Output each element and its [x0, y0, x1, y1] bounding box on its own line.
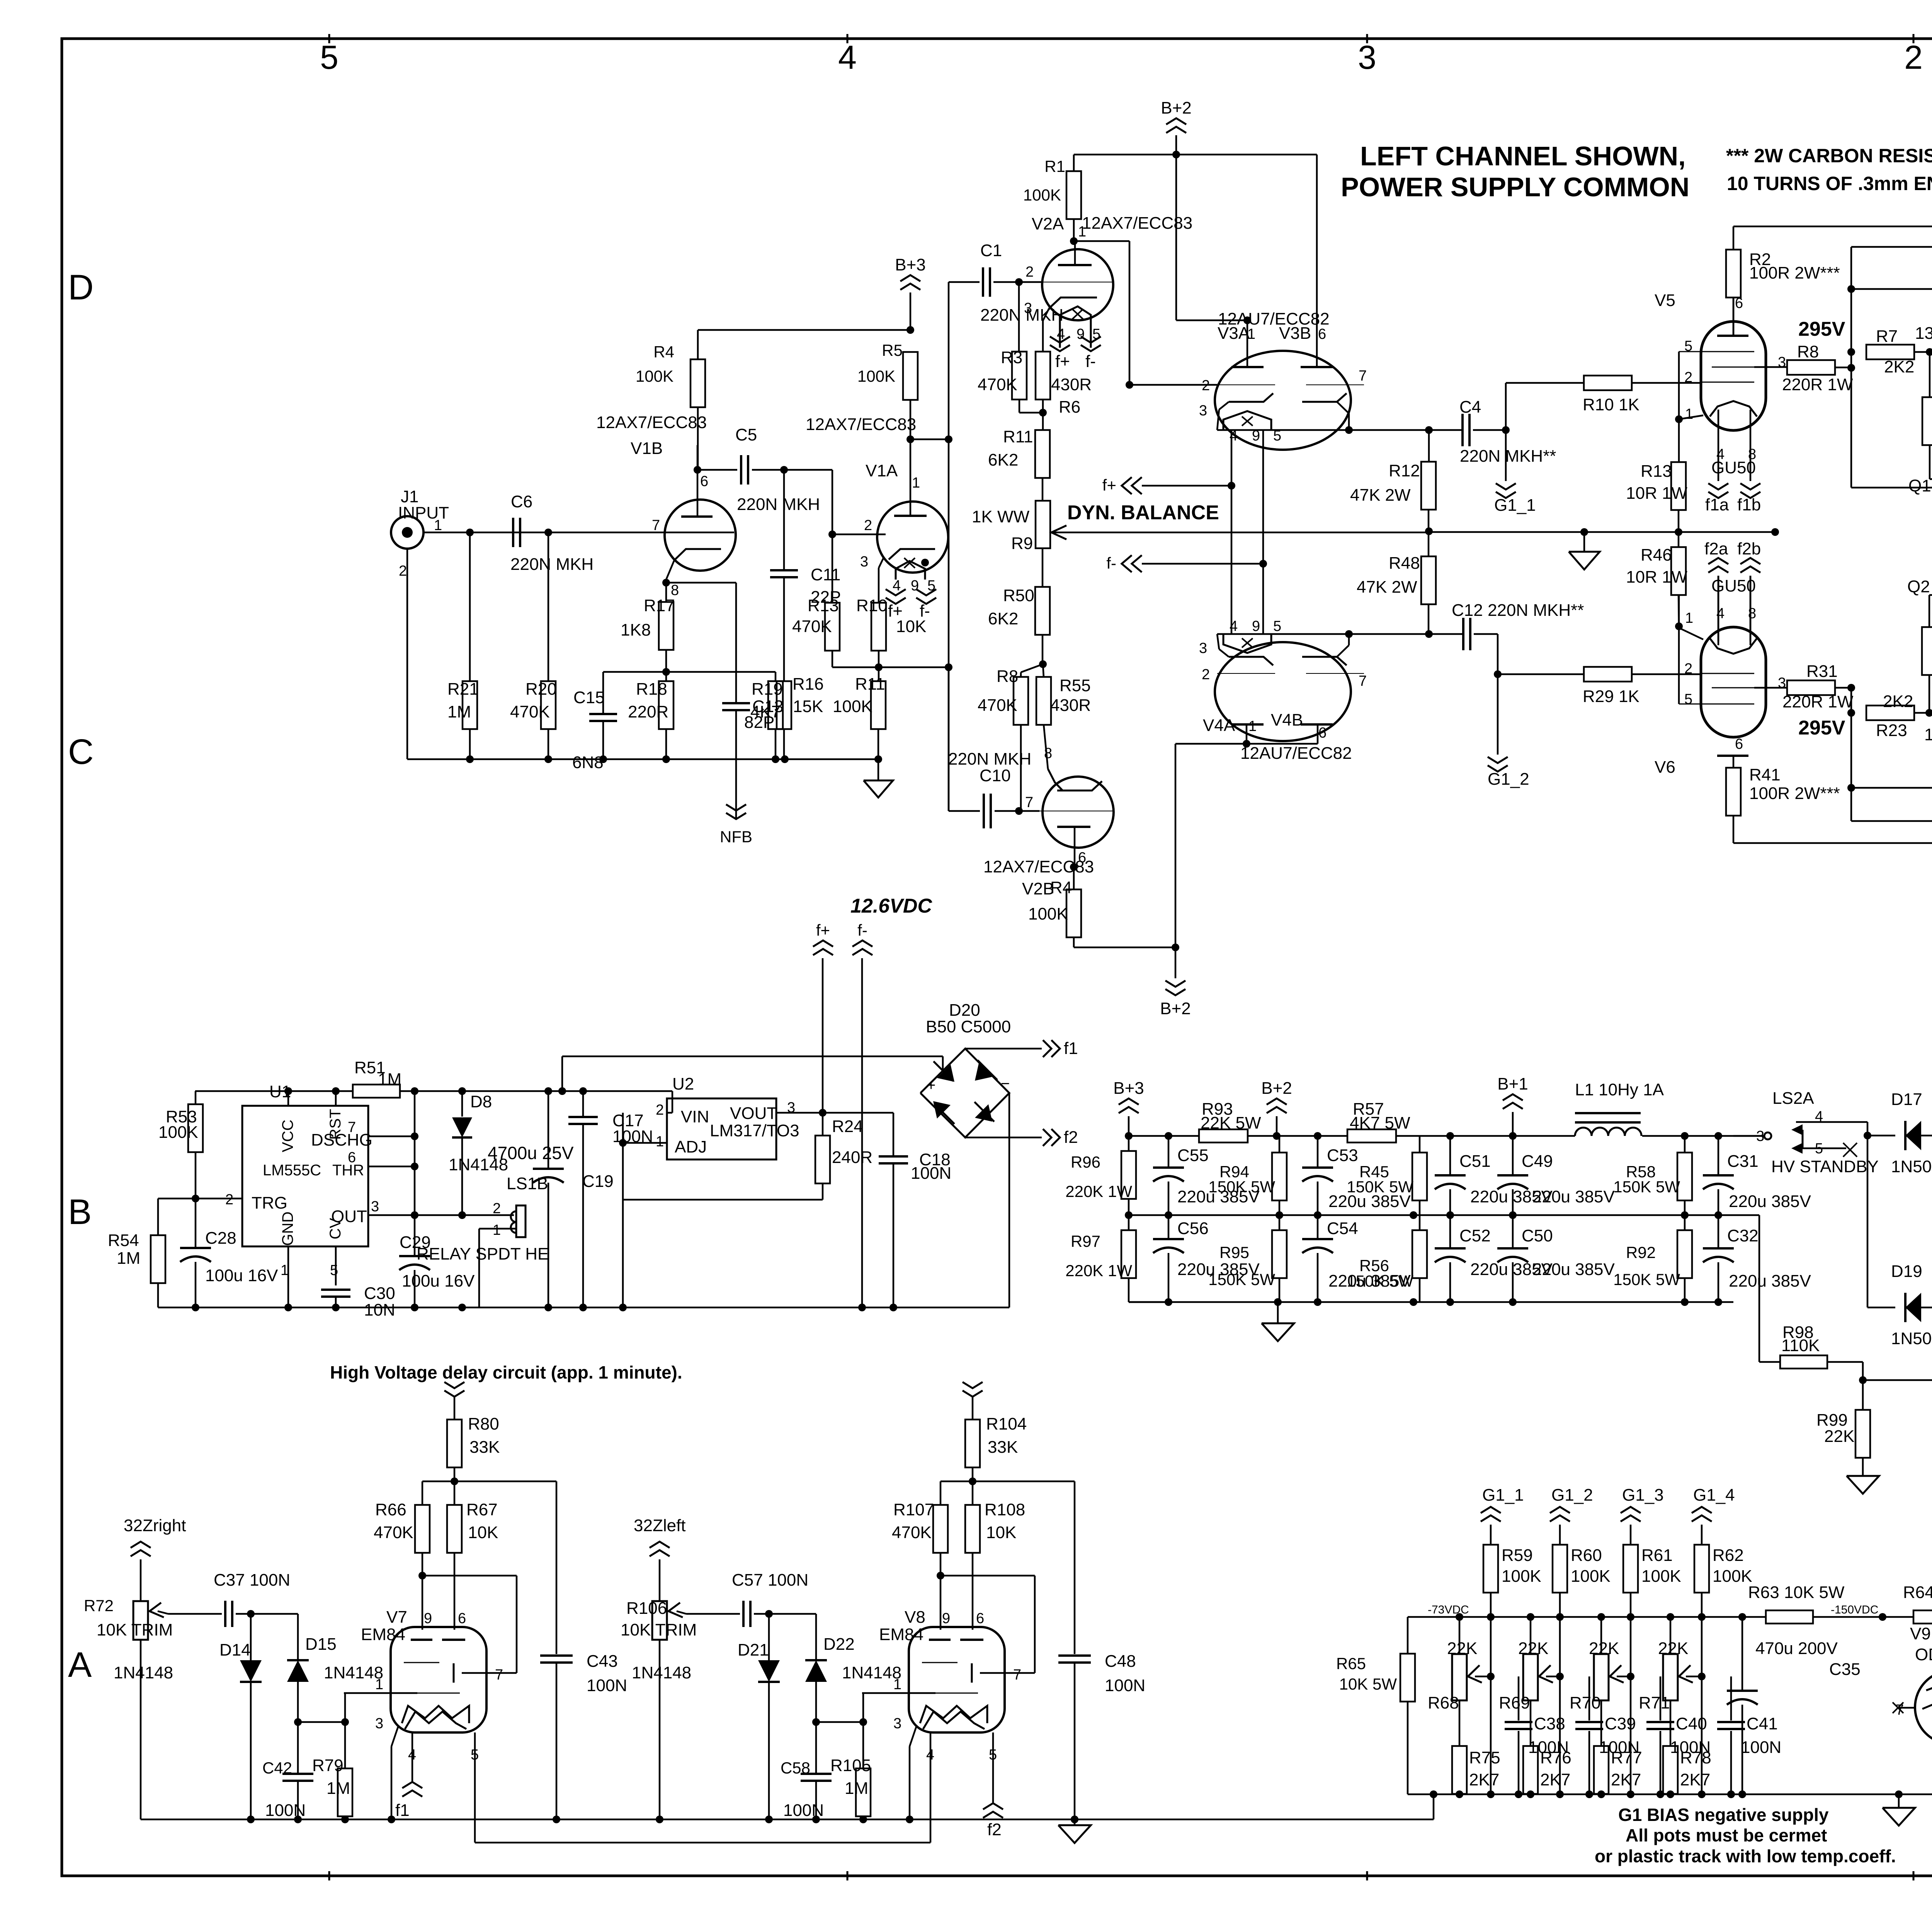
- resistor R97 220K 1W: [1065, 1215, 1168, 1302]
- resistor R48 47K 2W: [1357, 527, 1436, 634]
- capacitor 4700u 25V: [488, 1091, 574, 1307]
- heater V2 pins: [1050, 306, 1101, 371]
- net G1_2 arrow: [1550, 1486, 1593, 1545]
- svg-text:R79: R79: [312, 1756, 344, 1775]
- svg-text:VCC: VCC: [279, 1120, 296, 1152]
- resistor R10 10K: [856, 558, 926, 671]
- svg-text:2K2: 2K2: [1884, 357, 1914, 376]
- svg-text:R71: R71: [1639, 1693, 1670, 1712]
- svg-text:110K: 110K: [1781, 1336, 1820, 1355]
- svg-text:B50 C5000: B50 C5000: [926, 1017, 1011, 1036]
- svg-text:5: 5: [1815, 1141, 1823, 1157]
- svg-text:G1_1: G1_1: [1482, 1486, 1524, 1505]
- svg-text:1N4148: 1N4148: [324, 1663, 383, 1682]
- svg-text:82P: 82P: [744, 713, 774, 732]
- svg-text:4700u 25V: 4700u 25V: [488, 1143, 574, 1163]
- svg-text:R97: R97: [1071, 1232, 1100, 1250]
- svg-text:6: 6: [1318, 326, 1326, 342]
- zener D1 130Vz 1W: [1915, 308, 1932, 366]
- svg-text:R31: R31: [1806, 662, 1838, 681]
- capacitor C17 100N: [568, 1091, 653, 1307]
- svg-text:R20: R20: [526, 680, 557, 699]
- svg-text:R18: R18: [636, 680, 667, 699]
- svg-text:100N: 100N: [783, 1801, 824, 1820]
- svg-text:4: 4: [838, 39, 857, 76]
- svg-text:f2a: f2a: [1704, 539, 1728, 558]
- svg-text:130Vz 1W: 130Vz 1W: [1915, 324, 1932, 343]
- capacitor C42 100N: [262, 1722, 313, 1823]
- svg-text:7: 7: [652, 517, 660, 534]
- capacitor C51 220u 385V: [1435, 1136, 1553, 1215]
- svg-text:1: 1: [434, 517, 442, 534]
- svg-text:R67: R67: [466, 1500, 498, 1519]
- svg-text:R41: R41: [1749, 765, 1781, 784]
- resistor R98 110K: [1780, 1323, 1867, 1384]
- svg-text:4: 4: [1716, 446, 1725, 462]
- tube V7 EM84: [344, 1608, 503, 1732]
- wire V2A plate to V3A grid: [1074, 241, 1217, 389]
- svg-text:DYN. BALANCE: DYN. BALANCE: [1067, 502, 1219, 524]
- svg-text:C40: C40: [1676, 1714, 1707, 1733]
- capacitor C50 220u 385V: [1497, 1215, 1615, 1302]
- svg-text:f+: f+: [1102, 476, 1116, 494]
- svg-text:32Zleft: 32Zleft: [634, 1516, 686, 1535]
- svg-text:6: 6: [458, 1610, 466, 1627]
- svg-text:B+2: B+2: [1161, 99, 1192, 117]
- svg-text:R62: R62: [1713, 1546, 1744, 1565]
- net f1 heater: [395, 1732, 479, 1843]
- svg-text:6: 6: [1318, 725, 1327, 741]
- svg-text:-73VDC: -73VDC: [1428, 1603, 1469, 1616]
- svg-text:3: 3: [1199, 640, 1207, 656]
- svg-text:R21: R21: [447, 680, 479, 699]
- svg-text:−: −: [1001, 1075, 1010, 1092]
- svg-text:GND: GND: [279, 1212, 296, 1246]
- resistor R54 1M: [108, 1231, 165, 1307]
- wire V5 cathode-screen: [1675, 352, 1703, 462]
- svg-text:2: 2: [493, 1200, 501, 1217]
- tube V1A triode: [806, 415, 948, 573]
- svg-text:3: 3: [1199, 403, 1207, 419]
- wire OUT row: [368, 1211, 514, 1219]
- capacitor C32 220u 385V: [1703, 1215, 1811, 1302]
- svg-text:B+2: B+2: [1160, 999, 1191, 1018]
- svg-text:2: 2: [1904, 39, 1923, 76]
- wire em84 ground bus: [141, 1819, 1434, 1843]
- resistor R79 1M: [298, 1693, 352, 1823]
- capacitor C4 220N MKH**: [1459, 398, 1556, 466]
- svg-text:9: 9: [942, 1610, 950, 1627]
- svg-text:1: 1: [1685, 610, 1693, 626]
- svg-text:220N MKH: 220N MKH: [737, 495, 820, 514]
- svg-text:100K: 100K: [1641, 1567, 1681, 1586]
- svg-text:G1_2: G1_2: [1551, 1486, 1593, 1505]
- svg-text:C50: C50: [1522, 1226, 1553, 1245]
- resistor R50 6K2: [988, 548, 1050, 668]
- tube V4B internals: [1301, 630, 1367, 724]
- svg-text:470u 200V: 470u 200V: [1755, 1639, 1838, 1658]
- svg-text:A: A: [68, 1645, 92, 1685]
- svg-text:f2: f2: [1064, 1128, 1078, 1147]
- svg-text:2K2: 2K2: [1883, 692, 1913, 711]
- resistor R67 10K: [447, 1500, 498, 1630]
- resistor R8 220R 1W screen: [1754, 318, 1855, 394]
- capacitor C30 10N: [321, 1284, 395, 1319]
- svg-text:R70: R70: [1570, 1693, 1601, 1712]
- svg-text:R10 1K: R10 1K: [1583, 395, 1639, 414]
- svg-text:R17: R17: [644, 596, 675, 615]
- svg-text:47K 2W: 47K 2W: [1357, 578, 1417, 597]
- svg-text:7: 7: [1359, 368, 1367, 384]
- svg-text:R50: R50: [1003, 586, 1034, 605]
- svg-text:V4A: V4A: [1203, 716, 1235, 735]
- svg-text:C38: C38: [1534, 1714, 1565, 1733]
- svg-text:f-: f-: [1085, 352, 1096, 371]
- svg-text:EM84: EM84: [361, 1625, 405, 1644]
- net G1_2 arrow: [1488, 674, 1529, 789]
- svg-text:R63 10K 5W: R63 10K 5W: [1748, 1583, 1845, 1602]
- svg-text:1M: 1M: [327, 1779, 350, 1798]
- wire anode row: [940, 1481, 1075, 1654]
- wire R60 wiper node: [1556, 1617, 1564, 1794]
- diode D21 1N4148: [632, 1614, 780, 1823]
- wire B+ mid row: [1125, 1211, 1759, 1219]
- resistor R10 1K grid: [1506, 376, 1701, 430]
- wire R61 wiper node: [1627, 1617, 1634, 1794]
- ground em84: [1058, 1816, 1091, 1843]
- power B+2 arrow bottom: [1160, 944, 1191, 1018]
- transistor Q2 BUZ50: [1907, 571, 1932, 608]
- svg-text:1N5007: 1N5007: [1891, 1329, 1932, 1348]
- resistor R13 10R 1W: [1626, 462, 1687, 536]
- svg-text:1M: 1M: [117, 1249, 140, 1268]
- resistor R80 33K: [447, 1414, 500, 1485]
- svg-text:7: 7: [1896, 1702, 1904, 1718]
- svg-text:L1 10Hy 1A: L1 10Hy 1A: [1575, 1080, 1664, 1099]
- svg-text:1N4148: 1N4148: [114, 1663, 173, 1682]
- resistor R110 220R gate: [1922, 595, 1932, 713]
- resistor R61 100K: [1623, 1545, 1681, 1617]
- ground psu: [1262, 1302, 1294, 1341]
- svg-text:2: 2: [225, 1192, 233, 1208]
- svg-text:100u 16V: 100u 16V: [402, 1272, 475, 1290]
- potentiometer R68 22K: [1428, 1617, 1491, 1746]
- capacitor C54 220u 385V: [1302, 1215, 1411, 1302]
- wire pin3 gnd: [375, 1715, 398, 1823]
- svg-text:LM317/TO3: LM317/TO3: [710, 1121, 799, 1140]
- svg-text:HV STANDBY: HV STANDBY: [1771, 1157, 1879, 1176]
- svg-text:220u 385V: 220u 385V: [1729, 1192, 1811, 1211]
- net G1_3 arrow: [1621, 1486, 1664, 1545]
- wire R62 wiper node: [1698, 1617, 1706, 1794]
- svg-text:D: D: [68, 268, 94, 307]
- wire B+ rail top: [1125, 1132, 1764, 1140]
- svg-text:f1: f1: [395, 1801, 410, 1820]
- svg-text:R96: R96: [1071, 1153, 1100, 1171]
- svg-text:10R 1W: 10R 1W: [1626, 568, 1687, 587]
- svg-text:TRG: TRG: [252, 1193, 287, 1212]
- svg-text:D14: D14: [219, 1641, 251, 1659]
- svg-text:f2b: f2b: [1737, 539, 1761, 558]
- svg-text:V2B: V2B: [1022, 879, 1054, 898]
- svg-text:3: 3: [371, 1199, 379, 1215]
- power B+2 arrow top: [1161, 99, 1192, 155]
- resistor R108 10K: [965, 1500, 1025, 1630]
- resistor R56 150K 5W: [1347, 1215, 1427, 1302]
- diode D17 1N5007: [1867, 1090, 1932, 1176]
- capacitor C58 100N: [781, 1722, 832, 1823]
- trimpot R106 10K TRIM: [621, 1599, 697, 1823]
- resistor R11 6K2 driver: [988, 427, 1050, 501]
- svg-text:6: 6: [348, 1149, 356, 1166]
- svg-text:R66: R66: [375, 1500, 406, 1519]
- resistor R60 100K: [1553, 1545, 1611, 1617]
- wire VCC rail 12V: [195, 1087, 672, 1113]
- wire grid line V1: [423, 532, 734, 534]
- resistor R19 4K7: [750, 672, 783, 759]
- svg-text:100K: 100K: [857, 367, 895, 385]
- resistor R59 100K: [1483, 1545, 1541, 1617]
- svg-text:R64 1K 5W: R64 1K 5W: [1903, 1583, 1932, 1602]
- svg-text:R48: R48: [1389, 554, 1420, 573]
- svg-text:32Zright: 32Zright: [124, 1516, 186, 1535]
- svg-text:High Voltage delay circuit (ap: High Voltage delay circuit (app. 1 minut…: [330, 1362, 682, 1382]
- wire upper block rails: [1847, 247, 1932, 491]
- svg-text:9: 9: [1077, 326, 1085, 342]
- svg-text:Q2: Q2: [1907, 577, 1930, 596]
- svg-text:4: 4: [1815, 1108, 1823, 1125]
- svg-text:R92: R92: [1626, 1243, 1656, 1261]
- svg-text:1M: 1M: [447, 702, 471, 721]
- switch LS2A HV STANDBY: [1733, 1089, 1879, 1176]
- svg-text:R78: R78: [1680, 1748, 1711, 1767]
- capacitor C13 82P: [666, 583, 784, 819]
- svg-text:1: 1: [1248, 718, 1257, 734]
- svg-text:5: 5: [320, 39, 338, 76]
- svg-text:f+: f+: [816, 921, 830, 939]
- svg-text:D19: D19: [1891, 1262, 1922, 1281]
- svg-text:1M: 1M: [378, 1070, 401, 1089]
- svg-text:3: 3: [1358, 39, 1376, 76]
- svg-text:R6: R6: [1059, 398, 1080, 417]
- capacitor C39 100N: [1560, 1676, 1639, 1794]
- capacitor C40 100N: [1631, 1676, 1711, 1794]
- svg-text:4: 4: [926, 1747, 934, 1763]
- ground bias: [1883, 1794, 1915, 1826]
- svg-text:2K7: 2K7: [1540, 1770, 1570, 1789]
- svg-text:3: 3: [1778, 675, 1786, 691]
- capacitor C18 100N: [879, 1113, 951, 1307]
- wire J1 ground: [407, 549, 878, 759]
- svg-text:R8: R8: [1797, 342, 1819, 361]
- svg-text:R4: R4: [1050, 878, 1072, 897]
- svg-text:OUT: OUT: [331, 1207, 367, 1226]
- svg-text:All pots must be cermet: All pots must be cermet: [1626, 1825, 1827, 1845]
- wire B+ bottom row: [1129, 1298, 1733, 1306]
- svg-text:G1_4: G1_4: [1693, 1486, 1735, 1505]
- tube V2B triode: [983, 745, 1114, 898]
- svg-text:8: 8: [1748, 605, 1756, 622]
- svg-text:VIN: VIN: [681, 1107, 709, 1126]
- svg-text:f-: f-: [1106, 554, 1116, 572]
- ground bus mid: [1429, 528, 1779, 570]
- svg-text:C57 100N: C57 100N: [732, 1571, 808, 1590]
- resistor R75 2K7: [1452, 1746, 1500, 1794]
- resistor R29 1K grid: [1498, 667, 1701, 706]
- svg-text:V8: V8: [905, 1608, 925, 1627]
- svg-text:1: 1: [656, 1134, 664, 1150]
- svg-text:R8: R8: [997, 667, 1018, 686]
- svg-text:G1_1: G1_1: [1494, 496, 1536, 515]
- svg-text:Q1: Q1: [1908, 476, 1931, 495]
- svg-text:7: 7: [495, 1667, 503, 1683]
- svg-text:C43: C43: [587, 1652, 618, 1671]
- svg-text:12AU7/ECC82: 12AU7/ECC82: [1240, 744, 1352, 763]
- svg-text:100K: 100K: [1571, 1567, 1611, 1586]
- svg-text:R106: R106: [626, 1599, 667, 1618]
- tube V3B internals: [1301, 367, 1367, 434]
- svg-text:ADJ: ADJ: [675, 1137, 707, 1156]
- svg-text:f+: f+: [1055, 352, 1070, 371]
- resistor R76 2K7: [1523, 1746, 1571, 1794]
- wire B+2 to V3: [1176, 155, 1317, 367]
- svg-text:5: 5: [1684, 338, 1692, 354]
- svg-text:100N: 100N: [1741, 1738, 1781, 1757]
- svg-text:470K: 470K: [792, 617, 832, 636]
- svg-text:C: C: [68, 732, 94, 772]
- svg-text:C48: C48: [1105, 1652, 1136, 1671]
- svg-text:LEFT CHANNEL SHOWN,: LEFT CHANNEL SHOWN,: [1360, 141, 1686, 171]
- svg-text:1K WW: 1K WW: [972, 507, 1030, 526]
- svg-text:3: 3: [860, 554, 868, 570]
- resistor R4 100K: [636, 343, 705, 470]
- capacitor C57 100N: [686, 1571, 808, 1627]
- svg-text:100N: 100N: [911, 1164, 951, 1183]
- svg-text:10K: 10K: [986, 1523, 1016, 1542]
- svg-text:100N: 100N: [265, 1801, 306, 1820]
- svg-text:295V: 295V: [1798, 318, 1845, 340]
- wire ADJ: [619, 1139, 667, 1147]
- svg-text:2K7: 2K7: [1680, 1770, 1710, 1789]
- capacitor C56 220u 385V: [1153, 1215, 1260, 1302]
- svg-text:12AX7/ECC83: 12AX7/ECC83: [806, 415, 916, 434]
- heater V3 structure: [1223, 411, 1281, 634]
- svg-text:130Vz 1W: 130Vz 1W: [1924, 725, 1932, 744]
- svg-text:R23: R23: [1876, 721, 1907, 740]
- diode D19 1N5007: [1867, 1136, 1932, 1348]
- svg-text:100u 16V: 100u 16V: [205, 1266, 278, 1285]
- svg-text:1: 1: [493, 1222, 501, 1238]
- resistor R41 100R 2W: [1726, 736, 1932, 843]
- node dots input bus: [466, 529, 882, 763]
- capacitor C38 100N: [1491, 1676, 1569, 1794]
- svg-text:3: 3: [1024, 300, 1032, 316]
- svg-text:3: 3: [375, 1715, 383, 1732]
- resistor R95 150K 5W: [1208, 1215, 1287, 1302]
- svg-text:C52: C52: [1459, 1226, 1491, 1245]
- svg-text:R29 1K: R29 1K: [1583, 687, 1639, 706]
- power B+3 arrow V7: [444, 1382, 464, 1420]
- net f- arrow mid: [1106, 554, 1267, 572]
- svg-text:R10: R10: [856, 596, 888, 615]
- wire V1 plate row: [910, 435, 952, 479]
- svg-text:150K 5W: 150K 5W: [1613, 1270, 1680, 1289]
- resistor R6 430R: [1036, 308, 1092, 430]
- svg-text:C30: C30: [364, 1284, 395, 1303]
- tube V9 OD3A: [1893, 1617, 1932, 1794]
- svg-text:f-: f-: [857, 921, 867, 939]
- net f2 heater: [926, 1732, 1003, 1843]
- wire U1 pins bottom: [288, 1246, 336, 1307]
- svg-text:2: 2: [864, 517, 872, 534]
- wire V4B cathode row: [1217, 630, 1462, 638]
- svg-text:G1_3: G1_3: [1622, 1486, 1664, 1505]
- trimpot R72 10K TRIM: [84, 1596, 173, 1819]
- svg-text:1N5007: 1N5007: [1891, 1157, 1932, 1176]
- svg-text:4: 4: [893, 578, 901, 594]
- wire B+2 to V4 plates: [1175, 724, 1318, 947]
- diode D22 1N4148: [769, 1614, 901, 1726]
- IC U1 LM555C: [225, 1082, 379, 1278]
- svg-text:150K 5W: 150K 5W: [1347, 1178, 1413, 1196]
- svg-text:10K 5W: 10K 5W: [1339, 1675, 1397, 1693]
- svg-text:220K 1W: 220K 1W: [1065, 1182, 1132, 1200]
- heater V5 leads: [1705, 410, 1761, 514]
- svg-text:470K: 470K: [510, 702, 550, 721]
- svg-text:220R: 220R: [628, 702, 668, 721]
- svg-text:R72: R72: [84, 1596, 114, 1615]
- net G1_1 arrow: [1494, 430, 1536, 515]
- svg-text:V9: V9: [1910, 1624, 1931, 1643]
- wire TRG row: [158, 1195, 242, 1236]
- relay LS1B coil: [417, 1174, 549, 1307]
- svg-text:1N4148: 1N4148: [842, 1663, 901, 1682]
- potentiometer R69 22K: [1499, 1617, 1560, 1746]
- svg-text:100N: 100N: [1105, 1676, 1145, 1695]
- capacitor C6 220N MKH: [510, 492, 594, 574]
- svg-text:R3: R3: [1001, 348, 1022, 367]
- svg-text:6K2: 6K2: [988, 609, 1018, 628]
- resistor R63 10K 5W: [1748, 1583, 1845, 1624]
- capacitor C53 220u 385V: [1302, 1136, 1411, 1215]
- svg-text:22K: 22K: [1518, 1639, 1548, 1658]
- svg-text:G1 BIAS negative supply: G1 BIAS negative supply: [1618, 1805, 1829, 1825]
- svg-text:f1a: f1a: [1705, 495, 1729, 514]
- power B+3 arrow psu: [1113, 1079, 1144, 1136]
- svg-text:*** 2W CARBON RESISTOR WOUND W: *** 2W CARBON RESISTOR WOUND WITH: [1726, 145, 1932, 167]
- net f2a f2b arrows: [1704, 539, 1761, 641]
- svg-text:100R 2W***: 100R 2W***: [1749, 784, 1840, 803]
- svg-text:2: 2: [1684, 369, 1692, 386]
- svg-text:D20: D20: [949, 1001, 980, 1020]
- potentiometer R70 22K: [1570, 1617, 1631, 1746]
- wire R98 to heater tap: [1863, 1376, 1932, 1384]
- wire to C10: [879, 667, 980, 811]
- svg-text:220u 385V: 220u 385V: [1532, 1187, 1615, 1206]
- svg-text:+: +: [927, 1077, 935, 1094]
- svg-text:D8: D8: [470, 1092, 492, 1111]
- resistor R7 2K2: [1866, 327, 1932, 376]
- svg-text:R108: R108: [985, 1500, 1025, 1519]
- wire VOUT f+ node: [776, 958, 893, 1117]
- svg-text:100K: 100K: [1502, 1567, 1541, 1586]
- svg-text:22K: 22K: [1824, 1427, 1854, 1446]
- svg-text:R4: R4: [653, 343, 674, 361]
- svg-text:R19: R19: [752, 680, 783, 699]
- svg-text:8: 8: [1044, 745, 1052, 762]
- svg-text:100K: 100K: [1028, 904, 1068, 923]
- resistor R45 150K 5W: [1347, 1136, 1427, 1215]
